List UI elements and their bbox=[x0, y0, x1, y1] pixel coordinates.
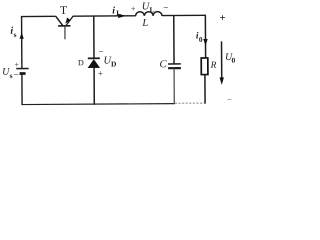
svg-text:C: C bbox=[160, 59, 168, 70]
svg-text:D: D bbox=[78, 58, 84, 67]
svg-text:0: 0 bbox=[199, 35, 203, 44]
svg-text:−: − bbox=[163, 2, 168, 12]
capacitor C bottom plate bbox=[168, 67, 181, 69]
wire top rail: inductor to right corner bbox=[162, 14, 205, 16]
wire bottom rail solid segment bbox=[21, 103, 174, 106]
svg-text:+: + bbox=[15, 60, 20, 69]
svg-text:−: − bbox=[14, 70, 19, 80]
wire diode branch lower bbox=[93, 68, 95, 105]
current arrow i_s (points up on left rail) bbox=[20, 32, 24, 38]
wire top rail left: source corner to transistor bbox=[21, 15, 56, 17]
wire left rail upper (source + to top corner) bbox=[21, 16, 23, 69]
svg-text:+: + bbox=[220, 13, 226, 24]
diode D triangle (tip up) bbox=[88, 59, 100, 68]
transistor T emitter slant (right) with wire continuing bbox=[66, 16, 73, 26]
inductor L coils bbox=[136, 12, 162, 16]
svg-text:T: T bbox=[60, 5, 67, 17]
wire bottom rail right lighter segment bbox=[175, 102, 206, 104]
wire top rail: transistor to inductor bbox=[73, 15, 136, 17]
svg-text:L: L bbox=[141, 18, 148, 29]
svg-text:D: D bbox=[111, 59, 117, 68]
wire capacitor branch lower bbox=[173, 68, 175, 104]
current arrow i_L (points right on top rail) bbox=[118, 14, 126, 18]
battery U_s short plate (-) bbox=[20, 72, 26, 75]
svg-text:i: i bbox=[112, 5, 115, 16]
wire left rail lower (battery - to bottom rail) bbox=[21, 74, 23, 106]
wire diode branch upper bbox=[93, 16, 95, 58]
transistor T base lead stub bbox=[64, 27, 66, 40]
svg-text:−: − bbox=[227, 95, 232, 104]
resistor R box bbox=[201, 58, 208, 75]
battery U_s long plate (+) bbox=[16, 68, 28, 70]
svg-text:R: R bbox=[210, 61, 217, 71]
transistor T collector slant (left) bbox=[56, 16, 63, 26]
svg-text:+: + bbox=[131, 3, 136, 13]
capacitor C top plate bbox=[168, 63, 181, 65]
svg-text:+: + bbox=[98, 68, 103, 78]
svg-text:0: 0 bbox=[231, 56, 235, 65]
voltage arrow U_0 (points down) bbox=[221, 41, 223, 78]
wire capacitor branch upper bbox=[173, 16, 175, 64]
wire right branch lower (resistor to bottom rail) bbox=[204, 75, 206, 104]
svg-text:L: L bbox=[116, 8, 121, 17]
transistor T base bar bbox=[58, 25, 70, 27]
transistor T emitter arrowhead (points toward base bar) bbox=[65, 17, 70, 23]
current arrow i_0 (points down) bbox=[203, 39, 207, 46]
svg-text:s: s bbox=[14, 30, 17, 39]
svg-text:s: s bbox=[10, 71, 13, 80]
diode D cathode bar bbox=[88, 57, 100, 59]
wire right branch upper (top corner down to resistor) bbox=[204, 15, 206, 58]
